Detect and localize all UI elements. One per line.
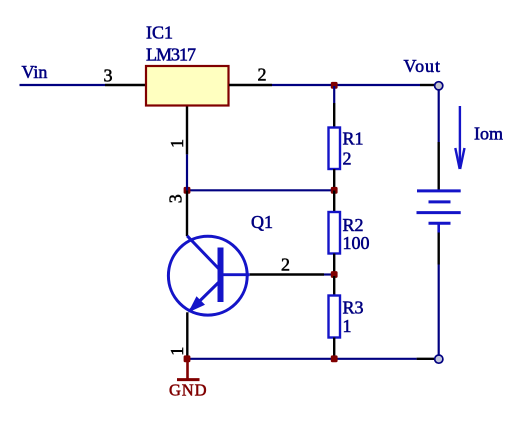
pin 1 of R2: [333, 191, 335, 213]
wire base rail navy part: [324, 273, 334, 275]
resistor R3: [329, 296, 341, 338]
pin 2 of R1: [333, 169, 335, 190]
node Vout terminal: [435, 82, 443, 90]
junction mid rail right: [331, 187, 338, 194]
svg-text:100: 100: [343, 233, 370, 253]
svg-text:R3: R3: [343, 297, 364, 317]
pin 1 of Q1 (emitter): [186, 312, 188, 359]
pin of bottom port: [417, 358, 435, 360]
wire Vin net: [20, 84, 106, 86]
pin 1 of battery: [438, 142, 440, 190]
pin 1 of R3: [333, 276, 335, 296]
wire top rail: [272, 84, 420, 86]
battery B1: [417, 191, 461, 233]
wire IC1 pin1 to mid rail: [186, 154, 188, 190]
svg-text:2: 2: [343, 148, 352, 168]
wire battery to bottom terminal: [438, 265, 440, 356]
svg-text:3: 3: [166, 194, 186, 203]
svg-text:2: 2: [258, 65, 267, 85]
op-amp U1: IC1 LM317 body: [146, 66, 229, 106]
svg-text:Vout: Vout: [404, 56, 441, 76]
svg-text:2: 2: [281, 255, 290, 275]
junction at top rail: [331, 82, 338, 89]
wire junction to R1: [333, 86, 335, 103]
svg-text:LM317: LM317: [146, 45, 196, 65]
ground symbol: [177, 359, 200, 380]
pin of Vout port: [420, 84, 435, 86]
wire Vout to battery: [438, 90, 440, 142]
pin 3 of IC1: [105, 84, 146, 86]
pin 3 of Q1 (collector): [186, 191, 188, 237]
junction mid rail left: [184, 187, 191, 194]
wire bottom rail: [187, 358, 417, 360]
svg-text:1: 1: [167, 139, 187, 148]
pin 1 of IC1: [186, 107, 188, 155]
pin 2 of battery: [438, 233, 440, 265]
resistor R1: [329, 128, 341, 170]
wire mid rail: [187, 189, 334, 191]
svg-text:Vin: Vin: [22, 62, 48, 82]
resistor R2: [329, 212, 341, 254]
pin 2 of Q1 (base): [250, 273, 324, 275]
svg-text:3: 3: [104, 66, 113, 86]
junction bottom left: [184, 355, 191, 362]
svg-text:IC1: IC1: [146, 23, 173, 43]
svg-text:Q1: Q1: [251, 212, 273, 232]
svg-text:1: 1: [167, 347, 187, 356]
svg-text:1: 1: [343, 316, 352, 336]
junction base rail: [331, 271, 338, 278]
current arrow Iom: [455, 106, 464, 169]
svg-text:Iom: Iom: [474, 124, 503, 144]
junction bottom at R3: [331, 355, 338, 362]
pin 2 of IC1: [229, 84, 272, 86]
pin 2 of R2: [333, 254, 335, 275]
node bottom terminal: [435, 355, 443, 363]
svg-text:GND: GND: [169, 380, 207, 399]
svg-text:R1: R1: [343, 128, 364, 148]
pin 2 of R3: [333, 338, 335, 359]
pin 1 of R1: [333, 103, 335, 128]
transistor Q1: [168, 236, 249, 315]
